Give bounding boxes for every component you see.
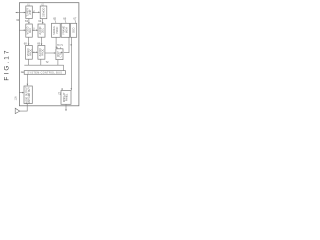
svg-text:OSD: OSD bbox=[72, 27, 75, 33]
svg-text:UNIT AMP OUT: UNIT AMP OUT bbox=[28, 87, 31, 104]
svg-text:PROC: PROC bbox=[29, 49, 32, 56]
svg-text:SYSTEM CONTROL BUS: SYSTEM CONTROL BUS bbox=[27, 72, 62, 75]
svg-text:MEM: MEM bbox=[66, 27, 69, 33]
svg-text:UNIT: UNIT bbox=[29, 9, 32, 15]
svg-text:116: 116 bbox=[14, 96, 17, 100]
svg-text:70 71: 70 71 bbox=[57, 45, 63, 47]
svg-text:PANEL: PANEL bbox=[66, 93, 69, 101]
svg-text:DEC: DEC bbox=[42, 28, 45, 33]
svg-text:CTRL: CTRL bbox=[60, 50, 63, 57]
svg-text:DEMOD: DEMOD bbox=[42, 8, 45, 18]
svg-text:FIG.17: FIG.17 bbox=[4, 48, 11, 80]
svg-text:PROC: PROC bbox=[42, 49, 45, 56]
svg-text:DEC: DEC bbox=[29, 28, 32, 33]
svg-text:PROC: PROC bbox=[56, 26, 59, 33]
